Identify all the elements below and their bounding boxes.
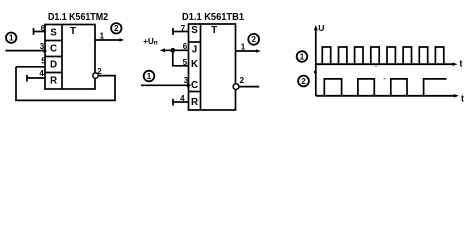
pin 5 D input wire	[16, 57, 46, 67]
svg-text:6: 6	[41, 24, 46, 33]
node 1 waveform marker	[297, 51, 308, 62]
pin 6 J input wire with left arrow to +Un	[160, 42, 189, 52]
pin 7 S input wire with terminal bar	[173, 24, 189, 35]
svg-text:1: 1	[147, 72, 152, 81]
svg-text:2: 2	[240, 76, 245, 85]
node 1 input marker	[6, 33, 16, 43]
svg-text:3: 3	[184, 76, 189, 85]
svg-text:4: 4	[180, 94, 185, 103]
IC label D1.1 K561TB1	[182, 12, 244, 23]
pin 3 C input wire from node 1	[6, 42, 48, 53]
pin 5 K input branch wire	[173, 50, 189, 67]
U axis with up arrow	[314, 23, 325, 96]
pin 4 R input wire with terminal bar	[27, 69, 45, 81]
svg-text:3: 3	[40, 42, 45, 51]
divided waveform row 2	[324, 79, 446, 96]
pin 6 S input wire with terminal bar	[34, 24, 46, 35]
pin 1 Q output wire with arrow	[95, 32, 124, 42]
scan speck	[375, 66, 377, 67]
svg-text:C: C	[191, 80, 198, 91]
svg-text:D: D	[50, 60, 57, 71]
svg-text:1: 1	[9, 34, 14, 43]
svg-text:2: 2	[251, 35, 256, 44]
svg-text:+Uп: +Uп	[143, 37, 157, 46]
junction dot on J/K supply wire	[170, 48, 175, 53]
node 2 waveform marker	[298, 76, 309, 87]
svg-text:5: 5	[41, 57, 46, 66]
svg-text:T: T	[70, 26, 76, 37]
svg-text:t: t	[461, 94, 464, 104]
scan speck	[384, 78, 386, 79]
svg-text:4: 4	[39, 69, 44, 78]
node 2 output marker	[248, 34, 259, 45]
pin 3 C input wire from node 1 with dynamic arrow	[141, 76, 191, 87]
svg-text:S: S	[191, 25, 198, 36]
pin 2 inverted output bubble	[93, 67, 102, 78]
clock waveform row 1	[322, 47, 444, 64]
svg-text:S: S	[50, 28, 57, 39]
svg-text:2: 2	[301, 77, 306, 86]
svg-text:6: 6	[183, 42, 188, 51]
feedback wire from pin 2 to D input	[16, 67, 115, 101]
node 2 output marker	[111, 23, 121, 33]
svg-text:K: K	[191, 59, 198, 70]
svg-text:T: T	[211, 25, 217, 36]
IC label D1.1 K561TM2	[48, 12, 108, 23]
svg-text:J: J	[192, 45, 197, 56]
svg-text:2: 2	[114, 24, 119, 33]
time axis row 2 with arrow and t label	[316, 94, 464, 104]
svg-text:R: R	[191, 97, 198, 108]
time axis row 1 with arrow and t label	[316, 59, 463, 69]
svg-text:U: U	[318, 23, 324, 33]
svg-text:D1.1 K561TB1: D1.1 K561TB1	[182, 12, 244, 23]
svg-text:1: 1	[100, 32, 105, 41]
pin 4 R input wire with terminal bar	[173, 94, 189, 105]
svg-text:D1.1 K561TM2: D1.1 K561TM2	[48, 12, 108, 23]
svg-text:1: 1	[241, 43, 246, 52]
axis tick dot row 2	[314, 71, 317, 74]
svg-text:R: R	[50, 76, 57, 87]
svg-text:C: C	[50, 44, 57, 55]
pin 2 inverted output bubble	[233, 76, 244, 89]
flip-flop D1.1 body (K561TB1)	[189, 24, 236, 110]
pin 1 Q output wire with arrow	[236, 43, 261, 53]
svg-text:t: t	[460, 59, 463, 69]
+Un supply label	[143, 37, 157, 46]
svg-text:5: 5	[183, 58, 188, 67]
node 1 input marker	[144, 71, 155, 82]
pin 2 output stub wire	[239, 86, 259, 88]
svg-text:7: 7	[181, 24, 186, 33]
svg-text:1: 1	[300, 52, 305, 61]
flip-flop D1.1 body (K561TM2)	[45, 25, 95, 90]
